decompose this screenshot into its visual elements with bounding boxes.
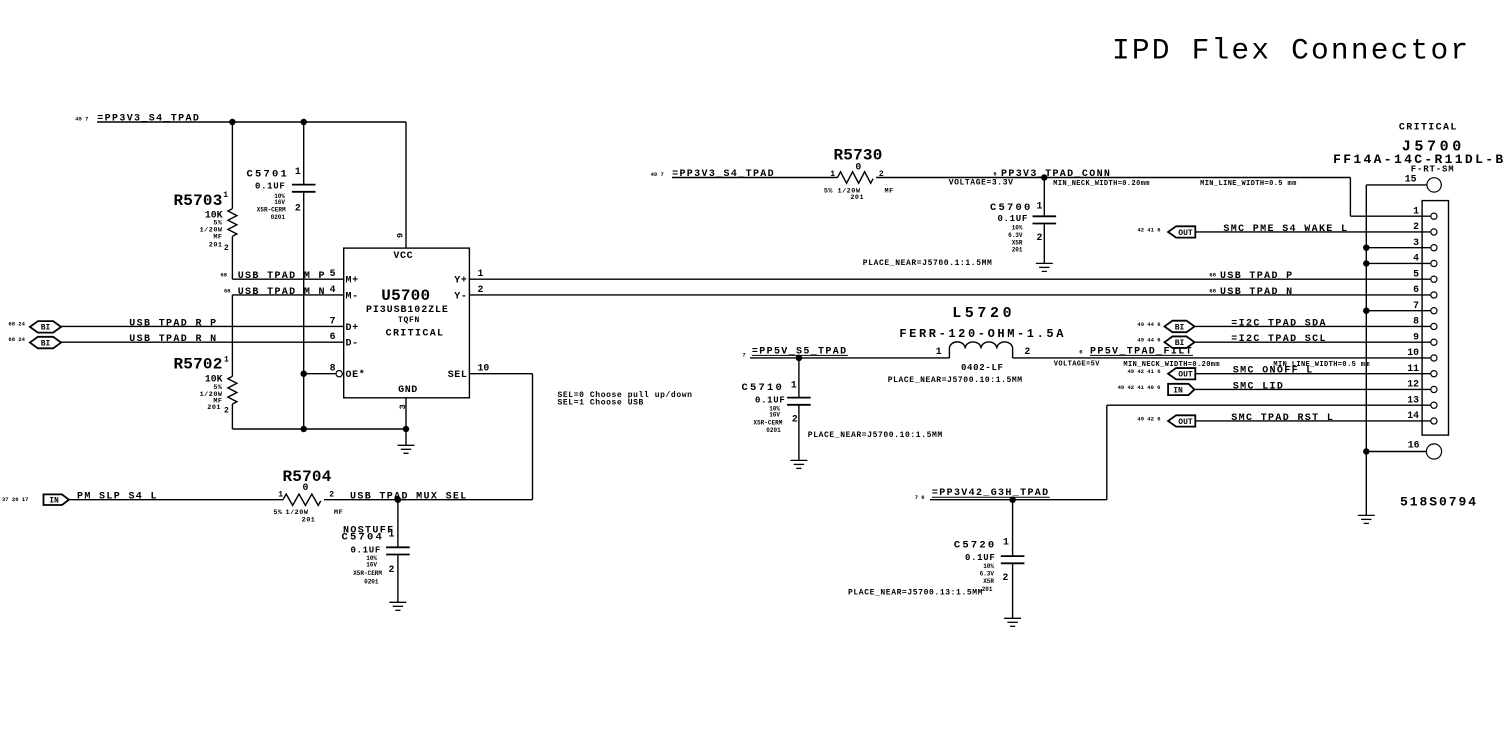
svg-text:4: 4 [1413, 253, 1419, 264]
svg-text:16V: 16V [366, 562, 377, 569]
svg-text:=I2C_TPAD_SCL: =I2C_TPAD_SCL [1231, 334, 1327, 345]
port BI I2C_TPAD_SCL [1165, 336, 1195, 348]
svg-text:6: 6 [993, 171, 996, 178]
svg-text:15: 15 [1405, 173, 1417, 184]
pin 2 [1431, 229, 1437, 235]
svg-text:BI: BI [1175, 339, 1185, 348]
ground bus [1365, 185, 1367, 516]
svg-text:7: 7 [330, 315, 336, 326]
pin 11 [1431, 371, 1437, 377]
svg-text:2: 2 [1024, 346, 1030, 357]
pin 7 stub [1366, 310, 1431, 312]
wire to pin 13 [1106, 405, 1108, 500]
svg-text:201: 201 [982, 586, 993, 593]
svg-text:OUT: OUT [1178, 229, 1193, 238]
capacitor C5704 [397, 500, 399, 548]
svg-text:49 42 41 6: 49 42 41 6 [1127, 368, 1160, 375]
port OUT SMC_PME_S4_WAKE_L [1168, 226, 1195, 237]
svg-text:PLACE_NEAR=J5700.13:1.5MM: PLACE_NEAR=J5700.13:1.5MM [848, 589, 983, 598]
svg-text:USB_TPAD_M_P: USB_TPAD_M_P [238, 271, 326, 282]
svg-text:MF: MF [213, 234, 222, 242]
svg-text:12: 12 [1407, 379, 1419, 390]
svg-text:0.1UF: 0.1UF [997, 214, 1028, 224]
svg-text:PI3USB102ZLE: PI3USB102ZLE [366, 305, 449, 316]
svg-text:0402-LF: 0402-LF [961, 363, 1004, 373]
svg-text:16V: 16V [769, 412, 780, 419]
svg-text:USB_TPAD_P: USB_TPAD_P [1220, 271, 1294, 282]
wire USB_TPAD_P [469, 278, 1430, 280]
svg-text:0201: 0201 [766, 427, 781, 434]
svg-text:201: 201 [207, 404, 221, 412]
svg-text:X5R-CERM: X5R-CERM [257, 206, 286, 213]
junction C5704 tap [395, 496, 402, 503]
junction C5720 tap [1009, 496, 1016, 503]
svg-text:2: 2 [792, 414, 798, 425]
svg-text:7: 7 [742, 351, 745, 358]
capacitor C5710 [798, 358, 800, 398]
svg-text:PLACE_NEAR=J5700.1:1.5MM: PLACE_NEAR=J5700.1:1.5MM [863, 259, 993, 268]
svg-text:X5R: X5R [983, 578, 994, 585]
svg-text:2: 2 [295, 203, 301, 214]
ground U5700 [405, 429, 407, 445]
svg-text:BI: BI [41, 324, 51, 333]
wire USB_TPAD_M_N [232, 294, 343, 296]
svg-text:10: 10 [478, 363, 490, 374]
svg-text:X5R-CERM: X5R-CERM [753, 420, 782, 427]
svg-text:IPD Flex Connector: IPD Flex Connector [1112, 34, 1470, 68]
pin 12 [1431, 386, 1437, 392]
svg-text:9: 9 [1413, 331, 1419, 342]
svg-text:6.3V: 6.3V [1008, 232, 1023, 239]
svg-text:=I2C_TPAD_SDA: =I2C_TPAD_SDA [1231, 318, 1327, 329]
net PP3V42_G3H_TPAD rail [930, 499, 1107, 501]
svg-text:0.1UF: 0.1UF [255, 182, 286, 192]
pin 3 stub [1366, 247, 1431, 249]
svg-text:Y-: Y- [454, 291, 467, 302]
svg-text:PLACE_NEAR=J5700.10:1.5MM: PLACE_NEAR=J5700.10:1.5MM [808, 431, 943, 440]
svg-text:49 44 6: 49 44 6 [1137, 321, 1160, 328]
svg-text:2: 2 [1037, 232, 1043, 243]
wire gnd under U5700 [232, 428, 406, 430]
svg-text:1: 1 [278, 491, 283, 500]
svg-text:2: 2 [478, 284, 484, 295]
resistor R5730 [838, 172, 874, 183]
svg-text:USB_TPAD_N: USB_TPAD_N [1220, 287, 1294, 298]
svg-text:5%: 5% [273, 509, 283, 517]
wire SMC_PME_S4_WAKE_L [1195, 231, 1431, 233]
svg-text:OE*: OE* [346, 369, 366, 381]
svg-text:68 24: 68 24 [8, 336, 25, 343]
svg-text:16: 16 [1408, 439, 1420, 450]
svg-text:201: 201 [302, 516, 316, 524]
svg-text:2: 2 [1413, 221, 1419, 232]
svg-text:C5704: C5704 [341, 532, 384, 544]
svg-text:F-RT-SM: F-RT-SM [1411, 164, 1455, 174]
wire SMC_LID [1194, 388, 1430, 390]
svg-text:BI: BI [41, 339, 51, 348]
pin 13 [1431, 402, 1437, 408]
svg-text:MF: MF [334, 509, 343, 517]
svg-text:7: 7 [1413, 300, 1419, 311]
svg-text:2: 2 [329, 491, 334, 500]
junction C5701 tap [300, 119, 307, 126]
svg-text:SMC_ONOFF_L: SMC_ONOFF_L [1233, 366, 1314, 377]
svg-text:1: 1 [830, 170, 835, 179]
svg-text:1: 1 [1003, 537, 1009, 548]
svg-text:MIN_NECK_WIDTH=0.20mm: MIN_NECK_WIDTH=0.20mm [1053, 180, 1150, 188]
port IN PM_SLP_S4_L [44, 494, 69, 505]
ground connector bus [1358, 515, 1375, 523]
svg-text:10: 10 [1407, 347, 1419, 358]
svg-text:6: 6 [1079, 348, 1082, 355]
svg-text:1: 1 [1413, 205, 1419, 216]
wire SMC_TPAD_RST_L [1195, 420, 1431, 422]
svg-text:1: 1 [224, 356, 229, 365]
svg-text:2: 2 [1003, 572, 1009, 583]
pin 4 stub [1366, 262, 1431, 264]
svg-text:5: 5 [330, 268, 336, 279]
svg-text:68: 68 [1209, 287, 1216, 294]
svg-text:9: 9 [395, 233, 405, 238]
wire I2C_TPAD_SCL [1195, 341, 1431, 343]
svg-text:0201: 0201 [364, 579, 379, 586]
pin 15 [1427, 178, 1441, 192]
wire USB_TPAD_N [469, 294, 1430, 296]
svg-text:0.1UF: 0.1UF [350, 546, 381, 556]
svg-text:1: 1 [389, 529, 395, 540]
svg-text:CRITICAL: CRITICAL [386, 329, 445, 340]
svg-text:68: 68 [1209, 272, 1216, 279]
svg-text:49 7: 49 7 [75, 116, 88, 123]
pin VCC [405, 122, 407, 248]
svg-text:USB_TPAD_R_P: USB_TPAD_R_P [129, 318, 217, 329]
svg-text:OUT: OUT [1178, 371, 1193, 380]
svg-text:D+: D+ [346, 323, 359, 334]
svg-text:11: 11 [1407, 363, 1419, 374]
svg-text:49 42 6: 49 42 6 [1137, 415, 1160, 422]
capacitor C5701 [303, 122, 305, 185]
pin 9 [1431, 339, 1437, 345]
net PP5V_S5_TPAD rail [750, 357, 949, 359]
wire to pin 1 [1349, 178, 1351, 217]
svg-text:1: 1 [791, 380, 797, 391]
svg-text:1: 1 [223, 191, 228, 200]
svg-text:10%: 10% [983, 563, 994, 570]
svg-text:4: 4 [330, 284, 336, 295]
svg-text:=PP3V3_S4_TPAD: =PP3V3_S4_TPAD [672, 169, 775, 180]
junction C5710 tap [796, 355, 803, 362]
svg-text:2: 2 [224, 407, 229, 416]
svg-text:USB_TPAD_R_N: USB_TPAD_R_N [129, 334, 217, 345]
svg-text:R5702: R5702 [173, 356, 222, 374]
svg-text:8: 8 [1413, 316, 1419, 327]
svg-text:0: 0 [855, 162, 861, 173]
port OUT SMC_TPAD_RST_L [1168, 415, 1195, 426]
junction R5703 tap [229, 119, 236, 126]
svg-text:201: 201 [1012, 247, 1023, 254]
pin OE* [336, 371, 342, 377]
svg-text:49 44 6: 49 44 6 [1137, 337, 1160, 344]
svg-text:D-: D- [346, 339, 359, 350]
pin 10 [1431, 355, 1437, 361]
svg-text:3: 3 [398, 404, 408, 409]
wire USB_TPAD_MUX_SEL [324, 499, 533, 501]
pin 6 [1431, 292, 1437, 298]
svg-text:SEL=1 Choose USB: SEL=1 Choose USB [558, 398, 644, 407]
svg-text:GND: GND [398, 385, 418, 396]
wire SEL to mux sel [469, 373, 532, 375]
svg-text:PM_SLP_S4_L: PM_SLP_S4_L [77, 492, 158, 503]
svg-text:0201: 0201 [271, 214, 286, 221]
svg-text:68 24: 68 24 [8, 320, 25, 327]
pin 16 [1426, 444, 1441, 459]
svg-text:5: 5 [1413, 268, 1419, 279]
ground C5720 [1004, 618, 1021, 626]
pin 1 [1431, 213, 1437, 219]
capacitor C5720 [1012, 500, 1014, 556]
svg-text:0: 0 [303, 482, 309, 493]
ground C5704 [389, 602, 406, 610]
pin 7 [1431, 308, 1437, 314]
svg-text:FERR-120-OHM-1.5A: FERR-120-OHM-1.5A [899, 327, 1066, 341]
pin 8 [1431, 323, 1437, 329]
svg-text:IN: IN [49, 497, 59, 506]
svg-text:37 26 17: 37 26 17 [2, 496, 28, 503]
wire USB_TPAD_R_N [61, 341, 344, 343]
wire SMC_ONOFF_L [1195, 373, 1431, 375]
svg-text:MIN_LINE_WIDTH=0.5 mm: MIN_LINE_WIDTH=0.5 mm [1200, 180, 1297, 188]
svg-text:SMC_LID: SMC_LID [1233, 381, 1284, 392]
wire PP5V_TPAD_FILT [1013, 357, 1431, 359]
svg-text:14: 14 [1407, 410, 1419, 421]
svg-text:16V: 16V [274, 199, 285, 206]
svg-text:USB_TPAD_M_N: USB_TPAD_M_N [238, 287, 326, 298]
svg-text:0.1UF: 0.1UF [965, 553, 996, 563]
svg-text:U5700: U5700 [381, 287, 430, 305]
port BI I2C_TPAD_SDA [1165, 321, 1195, 333]
svg-text:1: 1 [936, 346, 942, 357]
svg-text:68: 68 [224, 287, 231, 294]
junction C5700 tap [1041, 174, 1048, 181]
wire PM_SLP_S4_L [69, 499, 283, 501]
svg-text:6: 6 [1413, 284, 1419, 295]
port IN SMC_LID [1168, 384, 1194, 395]
svg-text:M-: M- [346, 291, 359, 302]
svg-text:0.1UF: 0.1UF [755, 396, 786, 406]
port BI USB_TPAD_R_N [30, 337, 61, 349]
svg-text:13: 13 [1407, 394, 1419, 405]
resistor R5703 [231, 122, 233, 209]
svg-text:7 6: 7 6 [915, 494, 925, 501]
svg-text:6: 6 [330, 331, 336, 342]
svg-text:M+: M+ [346, 276, 359, 287]
port OUT SMC_ONOFF_L [1168, 368, 1195, 379]
svg-text:1: 1 [478, 268, 484, 279]
svg-text:X5R-CERM: X5R-CERM [353, 570, 382, 577]
svg-text:201: 201 [850, 194, 864, 202]
svg-text:X5R: X5R [1012, 240, 1023, 247]
svg-text:TQFN: TQFN [398, 316, 420, 325]
resistor R5704 [283, 494, 321, 505]
svg-text:VCC: VCC [393, 251, 413, 262]
pin 14 [1431, 418, 1437, 424]
svg-text:42 41 6: 42 41 6 [1137, 227, 1160, 234]
svg-text:VOLTAGE=3.3V: VOLTAGE=3.3V [949, 178, 1014, 187]
svg-text:C5701: C5701 [246, 169, 289, 181]
IC U5700 body [344, 248, 470, 398]
ground C5710 [790, 460, 807, 468]
svg-text:49 7: 49 7 [651, 171, 664, 178]
svg-text:1: 1 [295, 166, 301, 177]
pin GND [405, 398, 407, 429]
svg-text:68: 68 [221, 272, 228, 279]
connector J5700 body [1422, 201, 1448, 436]
net PP3V3_S4_TPAD rail [97, 121, 406, 123]
svg-text:518S0794: 518S0794 [1400, 495, 1478, 510]
svg-text:3: 3 [1413, 237, 1419, 248]
svg-text:USB_TPAD_MUX_SEL: USB_TPAD_MUX_SEL [350, 492, 468, 503]
svg-text:OUT: OUT [1178, 418, 1193, 427]
svg-text:C5710: C5710 [741, 382, 784, 394]
pin 4 [1431, 260, 1437, 266]
svg-text:2: 2 [389, 564, 395, 575]
svg-text:6.3V: 6.3V [980, 571, 995, 578]
wire USB_TPAD_R_P [61, 325, 344, 327]
resistor R5702 [231, 295, 233, 376]
svg-text:49 42 41 40 6: 49 42 41 40 6 [1118, 384, 1161, 391]
svg-text:IN: IN [1173, 386, 1183, 395]
wire I2C_TPAD_SDA [1195, 325, 1431, 327]
svg-text:8: 8 [330, 363, 336, 374]
svg-text:1: 1 [1037, 201, 1043, 212]
wire PP3V3_TPAD_CONN [876, 177, 1350, 179]
svg-text:PLACE_NEAR=J5700.10:1.5MM: PLACE_NEAR=J5700.10:1.5MM [888, 376, 1023, 385]
svg-text:SEL: SEL [448, 370, 468, 381]
svg-text:SMC_TPAD_RST_L: SMC_TPAD_RST_L [1231, 413, 1334, 424]
svg-text:BI: BI [1175, 323, 1185, 332]
net PP3V3_S4_TPAD rail 2 [672, 177, 838, 179]
svg-text:10%: 10% [1012, 225, 1023, 232]
svg-text:VOLTAGE=5V: VOLTAGE=5V [1054, 360, 1100, 368]
svg-text:2: 2 [224, 244, 229, 253]
svg-text:5%: 5% [824, 187, 834, 195]
svg-text:201: 201 [209, 242, 223, 250]
ground C5700 [1036, 263, 1053, 271]
svg-text:SMC_PME_S4_WAKE_L: SMC_PME_S4_WAKE_L [1223, 224, 1348, 235]
svg-text:CRITICAL: CRITICAL [1399, 123, 1458, 134]
svg-text:10K: 10K [205, 374, 223, 385]
inductor L5720 ferrite [949, 342, 1012, 358]
port BI USB_TPAD_R_P [30, 321, 61, 333]
svg-text:MF: MF [885, 187, 894, 195]
svg-text:C5700: C5700 [990, 202, 1033, 214]
svg-text:PP3V3_TPAD_CONN: PP3V3_TPAD_CONN [1001, 169, 1111, 180]
pin 3 [1431, 245, 1437, 251]
pin 5 [1431, 276, 1437, 282]
svg-text:Y+: Y+ [454, 276, 467, 287]
svg-text:L5720: L5720 [952, 305, 1015, 322]
wire USB_TPAD_M_P [232, 278, 343, 280]
svg-text:R5703: R5703 [173, 192, 222, 210]
capacitor C5700 [1043, 178, 1045, 217]
svg-text:C5720: C5720 [954, 540, 997, 552]
svg-text:=PP3V3_S4_TPAD: =PP3V3_S4_TPAD [97, 114, 200, 125]
